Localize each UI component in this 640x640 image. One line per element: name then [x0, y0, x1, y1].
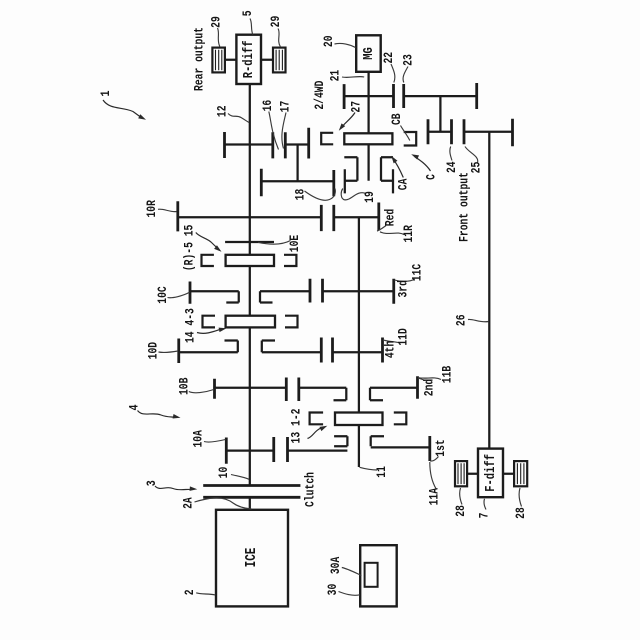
- svg-text:(R)-5 15: (R)-5 15: [183, 224, 197, 271]
- svg-text:11: 11: [376, 466, 390, 478]
- svg-text:30A: 30A: [330, 557, 344, 575]
- svg-text:Rear output: Rear output: [193, 27, 207, 91]
- svg-text:28: 28: [515, 507, 529, 519]
- svg-text:30: 30: [327, 584, 341, 596]
- svg-text:10B: 10B: [178, 377, 192, 395]
- svg-text:10D: 10D: [148, 342, 162, 360]
- svg-text:23: 23: [403, 54, 417, 66]
- svg-text:18: 18: [294, 189, 308, 201]
- svg-text:28: 28: [455, 505, 469, 517]
- svg-text:F-diff: F-diff: [483, 454, 499, 492]
- svg-text:10C: 10C: [157, 286, 171, 304]
- svg-text:1st: 1st: [435, 439, 449, 456]
- svg-text:26: 26: [455, 314, 469, 326]
- svg-text:4: 4: [126, 405, 142, 411]
- svg-text:10: 10: [218, 467, 232, 479]
- svg-text:ICE: ICE: [243, 547, 260, 567]
- svg-text:R-diff: R-diff: [241, 41, 257, 79]
- svg-text:22: 22: [383, 52, 397, 64]
- svg-text:29: 29: [210, 16, 224, 28]
- svg-text:2nd: 2nd: [423, 379, 437, 397]
- svg-text:4th: 4th: [385, 341, 399, 359]
- svg-text:10R: 10R: [146, 200, 160, 218]
- svg-text:MG: MG: [361, 47, 377, 60]
- svg-text:10E: 10E: [289, 235, 303, 253]
- svg-text:11D: 11D: [398, 328, 412, 346]
- svg-text:Front output: Front output: [458, 172, 472, 242]
- svg-text:21: 21: [330, 70, 344, 82]
- svg-text:3rd: 3rd: [398, 280, 412, 298]
- svg-text:10A: 10A: [193, 430, 207, 448]
- svg-text:19: 19: [364, 191, 378, 203]
- svg-text:2/4WD: 2/4WD: [314, 80, 328, 109]
- svg-text:11C: 11C: [411, 264, 425, 282]
- svg-text:Clutch: Clutch: [304, 472, 318, 507]
- svg-text:13 1-2: 13 1-2: [290, 408, 304, 443]
- svg-text:2A: 2A: [182, 497, 196, 509]
- svg-text:11B: 11B: [441, 366, 455, 384]
- svg-text:11A: 11A: [429, 488, 443, 506]
- svg-text:11R: 11R: [403, 225, 417, 243]
- svg-text:29: 29: [270, 16, 284, 28]
- svg-text:5: 5: [242, 10, 256, 16]
- svg-text:1: 1: [98, 91, 114, 97]
- svg-text:7: 7: [478, 512, 492, 518]
- svg-text:2: 2: [184, 589, 198, 595]
- svg-text:14 4-3: 14 4-3: [184, 308, 198, 343]
- svg-text:CA: CA: [398, 178, 412, 190]
- svg-text:Red: Red: [385, 209, 399, 227]
- svg-text:3: 3: [144, 480, 160, 486]
- svg-text:12: 12: [216, 105, 230, 117]
- svg-text:16: 16: [262, 100, 276, 112]
- svg-text:24: 24: [446, 161, 460, 173]
- svg-text:17: 17: [279, 101, 293, 113]
- svg-text:20: 20: [323, 35, 337, 47]
- svg-text:27: 27: [350, 101, 364, 113]
- svg-text:CB: CB: [391, 113, 405, 125]
- svg-text:C: C: [425, 174, 439, 180]
- svg-text:25: 25: [470, 162, 484, 174]
